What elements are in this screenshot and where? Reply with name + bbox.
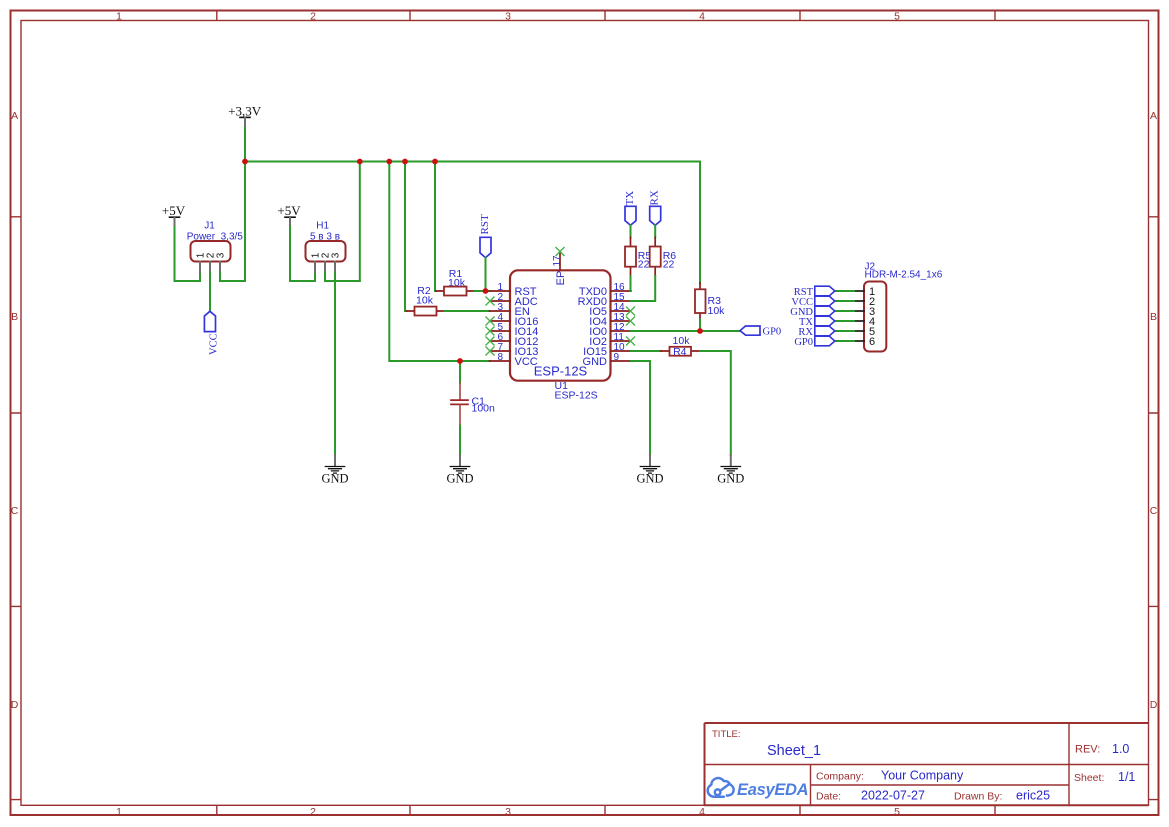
net flag TX (J2.4) xyxy=(799,316,835,328)
svg-text:RX: RX xyxy=(649,190,661,205)
svg-text:C: C xyxy=(11,505,19,517)
net flag VCC xyxy=(204,311,219,355)
wire +5V to H1 pin1 xyxy=(290,227,315,281)
svg-text:ESP-12S: ESP-12S xyxy=(534,364,588,379)
svg-text:9: 9 xyxy=(614,352,620,363)
resistor R6 xyxy=(650,237,677,276)
svg-text:Your Company: Your Company xyxy=(881,769,964,783)
svg-text:Company:: Company: xyxy=(816,771,864,783)
wire 3.3V bus xyxy=(245,161,700,163)
svg-text:TITLE:: TITLE: xyxy=(712,729,741,740)
wire bus drop to VCC row xyxy=(389,162,489,362)
wire TX flag to R5 xyxy=(630,225,632,237)
EasyEDA logo xyxy=(708,778,734,797)
svg-text:8: 8 xyxy=(497,352,503,363)
connector J2 xyxy=(854,261,943,351)
connector H1 xyxy=(306,221,346,273)
net flag TX xyxy=(624,191,636,226)
ground (C1) xyxy=(446,455,473,486)
wire bus to R3 xyxy=(699,162,701,284)
svg-text:1: 1 xyxy=(116,11,122,23)
svg-text:+5V: +5V xyxy=(277,203,301,218)
svg-text:3: 3 xyxy=(331,252,342,258)
wire RX flag to R6 xyxy=(654,225,656,237)
wire R4 to GND xyxy=(700,351,731,455)
svg-text:10k: 10k xyxy=(416,294,434,306)
svg-text:GP0: GP0 xyxy=(794,337,813,348)
no-connect crosses right xyxy=(627,307,635,345)
U1 left pins xyxy=(490,291,511,361)
svg-text:GND: GND xyxy=(446,472,473,486)
net flag VCC (J2.2) xyxy=(791,296,834,308)
svg-text:+3,3V: +3,3V xyxy=(228,104,262,119)
svg-text:A: A xyxy=(11,110,18,122)
svg-text:2022-07-27: 2022-07-27 xyxy=(861,789,925,803)
svg-text:3: 3 xyxy=(216,252,227,258)
svg-text:REV:: REV: xyxy=(1075,744,1100,756)
svg-text:5: 5 xyxy=(894,806,900,818)
no-connect cross EP xyxy=(556,248,564,256)
svg-text:GP0: GP0 xyxy=(763,327,782,338)
U1 right pins xyxy=(611,291,632,361)
wire H1 pin3 to GND xyxy=(334,281,336,455)
power flag +5V (H1) xyxy=(277,203,301,227)
svg-text:Sheet_1: Sheet_1 xyxy=(767,743,821,759)
svg-text:A: A xyxy=(1150,110,1157,122)
ground (R4) xyxy=(717,455,744,486)
svg-text:R4: R4 xyxy=(673,346,687,358)
resistor R5 xyxy=(625,237,651,276)
ground (H1) xyxy=(321,455,348,486)
wire bus drop to H1 xyxy=(359,162,361,282)
svg-text:4: 4 xyxy=(699,806,705,818)
wire GND pin9 to GND xyxy=(631,361,650,455)
wires J2 pins xyxy=(835,291,854,341)
svg-text:RST: RST xyxy=(479,214,491,234)
wire IO0 to GP0 flag xyxy=(631,330,740,332)
svg-text:GND: GND xyxy=(636,472,663,486)
wire RST flag to pin1 xyxy=(485,258,487,291)
svg-text:B: B xyxy=(11,311,18,323)
U1 pin names xyxy=(515,271,608,368)
resistor R4 xyxy=(661,335,700,358)
connector J1 xyxy=(187,221,244,273)
net flag RST (J2.1) xyxy=(794,286,835,298)
svg-text:D: D xyxy=(11,699,19,711)
wire bus drop to R2 xyxy=(405,162,407,312)
wire +5V to J1 pin1 xyxy=(175,227,201,281)
net flag RST xyxy=(479,214,491,258)
svg-text:3: 3 xyxy=(505,806,511,818)
wire J1 pin2 to VCC flag xyxy=(209,273,211,312)
svg-text:D: D xyxy=(1150,699,1158,711)
svg-text:17: 17 xyxy=(552,255,563,267)
power flag +5V (J1) xyxy=(162,203,186,227)
svg-text:HDR-M-2.54_1x6: HDR-M-2.54_1x6 xyxy=(865,269,943,280)
wire R3 to IO0 net xyxy=(699,320,701,332)
svg-text:C: C xyxy=(1150,505,1158,517)
net flag RX (J2.5) xyxy=(798,326,834,338)
svg-text:6: 6 xyxy=(869,336,875,348)
U1 pin numbers xyxy=(497,255,625,363)
svg-text:2: 2 xyxy=(310,806,316,818)
svg-text:22: 22 xyxy=(663,258,675,270)
svg-text:ESP-12S: ESP-12S xyxy=(555,389,598,401)
svg-text:3: 3 xyxy=(505,11,511,23)
svg-text:EasyEDA: EasyEDA xyxy=(737,781,808,799)
svg-text:100n: 100n xyxy=(472,403,496,415)
wire J1 pin3 to bus drop xyxy=(220,162,245,282)
ground (U1 pin9) xyxy=(636,455,663,486)
svg-text:1: 1 xyxy=(116,806,122,818)
resistor R1 xyxy=(436,268,475,296)
resistor R2 xyxy=(407,285,445,316)
resistor R3 xyxy=(695,283,725,320)
svg-text:Sheet:: Sheet: xyxy=(1074,772,1104,784)
wire bus drop to R1 xyxy=(435,162,436,292)
svg-text:1/1: 1/1 xyxy=(1118,770,1135,784)
wire R6 to RXD0 xyxy=(631,276,655,301)
capacitor C1 xyxy=(451,361,495,426)
svg-text:+5V: +5V xyxy=(162,203,186,218)
svg-text:H1: H1 xyxy=(316,221,329,232)
wire C1 to GND xyxy=(459,426,461,456)
svg-text:2: 2 xyxy=(310,11,316,23)
svg-text:GND: GND xyxy=(321,472,348,486)
wire R1 to RST junction xyxy=(475,290,490,292)
net flag GP0 xyxy=(740,326,781,338)
svg-text:VCC: VCC xyxy=(209,333,220,355)
power flag +3,3V xyxy=(228,104,262,128)
net flag GND (J2.3) xyxy=(790,306,835,318)
svg-text:Drawn By:: Drawn By: xyxy=(954,791,1002,803)
TITLE BLOCK xyxy=(705,723,1149,805)
net flag RX xyxy=(649,190,661,225)
IC U1 ESP-12S xyxy=(486,248,635,402)
wire R2 to EN xyxy=(445,310,490,312)
svg-text:4: 4 xyxy=(699,11,705,23)
wire +3.3V stem xyxy=(244,128,246,162)
svg-text:1.0: 1.0 xyxy=(1112,742,1129,756)
svg-text:J1: J1 xyxy=(204,221,215,232)
svg-text:Date:: Date: xyxy=(816,791,841,803)
svg-text:GND: GND xyxy=(717,472,744,486)
wire IO15 to R4 xyxy=(631,350,661,352)
svg-text:B: B xyxy=(1150,311,1157,323)
svg-text:5: 5 xyxy=(894,11,900,23)
U1 EP pin 17 xyxy=(559,252,561,270)
svg-text:EP: EP xyxy=(555,271,567,286)
svg-text:eric25: eric25 xyxy=(1016,789,1050,803)
junction dots xyxy=(242,159,703,364)
wire H1 pin2/pin3 tie xyxy=(325,273,360,282)
svg-text:TX: TX xyxy=(624,191,636,206)
net flag GP0 (J2.6) xyxy=(794,336,834,348)
no-connect crosses left xyxy=(486,297,494,355)
svg-text:10k: 10k xyxy=(708,305,726,317)
wire R5 to TXD0 xyxy=(630,276,632,291)
svg-text:22: 22 xyxy=(638,258,650,270)
